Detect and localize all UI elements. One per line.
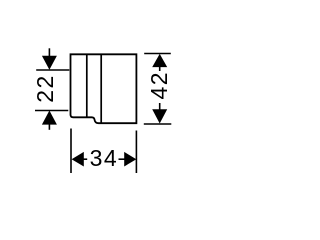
dimension 22: top tick bbox=[36, 69, 69, 71]
dimension 22: bottom lead line bbox=[48, 124, 50, 130]
dimension 34: line left segment bbox=[83, 158, 87, 160]
dimension 22: top lead line bbox=[48, 48, 50, 56]
dimension 22: bottom tick bbox=[35, 110, 68, 112]
dimension 42: upper stem bbox=[159, 67, 161, 72]
dimension 22: bottom arrow (up) bbox=[42, 111, 57, 125]
product body outline bbox=[71, 54, 137, 123]
svg-text:42: 42 bbox=[146, 71, 172, 100]
dimension 34: left arrow bbox=[72, 152, 84, 167]
dimension 34: line right segment bbox=[119, 158, 126, 160]
dimension 42: top arrow (up) bbox=[152, 54, 167, 67]
body internal line 2 bbox=[100, 54, 102, 123]
dimension 42: top tick bbox=[144, 53, 171, 55]
dimension 34: right arrow bbox=[124, 152, 136, 167]
dimension 22: top arrow (down) bbox=[42, 56, 57, 70]
svg-text:34: 34 bbox=[90, 145, 119, 171]
dimension 42: lower stem bbox=[159, 103, 161, 110]
dimension 42: bottom arrow (down) bbox=[152, 109, 167, 123]
body internal line 1 bbox=[86, 54, 88, 117]
dimension 34: left extension line bbox=[70, 129, 72, 174]
dimension 42: bottom tick bbox=[144, 123, 172, 125]
dimension 34: right extension line bbox=[135, 131, 137, 174]
svg-text:22: 22 bbox=[32, 74, 58, 103]
